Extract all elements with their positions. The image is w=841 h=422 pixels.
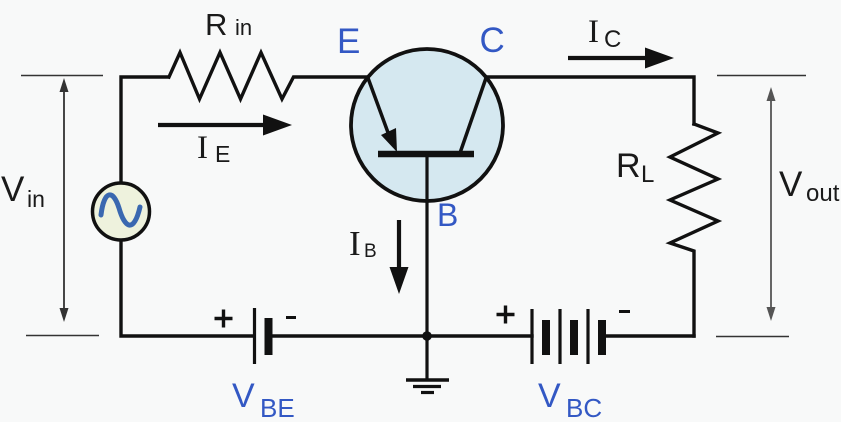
svg-text:V: V — [538, 377, 561, 415]
svg-text:C: C — [604, 26, 621, 53]
svg-text:in: in — [235, 15, 252, 40]
svg-text:R: R — [616, 147, 641, 185]
svg-text:E: E — [215, 141, 230, 167]
svg-text:BC: BC — [566, 393, 602, 422]
svg-text:I: I — [349, 224, 361, 263]
svg-text:out: out — [806, 180, 840, 207]
svg-text:V: V — [232, 377, 255, 415]
svg-text:BE: BE — [260, 393, 295, 422]
svg-text:L: L — [641, 161, 654, 188]
svg-text:R: R — [205, 7, 227, 42]
svg-text:B: B — [364, 241, 377, 262]
svg-text:V: V — [779, 165, 803, 204]
svg-text:C: C — [480, 21, 505, 60]
svg-text:B: B — [437, 197, 458, 233]
svg-text:I: I — [588, 14, 599, 50]
svg-text:E: E — [337, 22, 360, 61]
svg-text:in: in — [27, 186, 45, 212]
svg-text:V: V — [1, 170, 25, 209]
svg-text:I: I — [197, 130, 208, 166]
